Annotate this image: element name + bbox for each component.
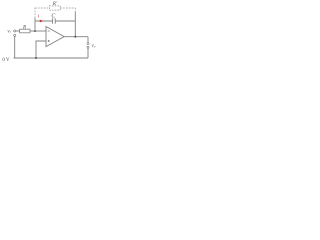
node: rail junction dot [35,57,37,59]
current arrow i (red) [40,20,44,23]
wire: op-amp output [64,36,88,38]
wire: output down to terminal [87,37,89,43]
svg-text:vi: vi [7,30,10,35]
svg-text:vo: vo [92,44,96,49]
output terminal upper circle [87,43,89,45]
op-amp minus sign [48,30,50,32]
wire: bottom 0V rail [14,57,89,59]
wire: non-inverting input to ground rail [36,41,46,58]
wire: capacitor branch right segment [56,20,76,22]
wire: dashed horizontal from R' (right lead) [60,7,75,9]
node: summing junction dot [34,30,36,32]
op-amp U1 [46,27,64,47]
svg-text:i: i [38,15,40,20]
resistor R [20,29,30,33]
svg-text:0 V: 0 V [2,58,10,63]
wire: lower input terminal to rail [14,37,16,59]
wire: dashed horizontal to R' (left lead) [35,7,49,9]
wire: dashed top of right vertical [74,8,76,12]
svg-text:R′: R′ [52,1,58,7]
op-amp plus sign [48,40,50,42]
wire: summing node up to capacitor branch [34,18,36,31]
wire: input terminal to resistor R [16,30,20,32]
wire: resistor to summing node and op-amp inverting input [30,30,46,32]
output terminal lower circle [87,46,89,48]
wire: dashed vertical of optional R' branch (left) [34,8,36,18]
capacitor C left plate [52,18,54,23]
node: feedback/output junction dot [74,36,76,38]
resistor R' (dashed, optional) [49,6,60,10]
capacitor C right plate [54,18,56,23]
wire: right vertical down to output junction [74,12,76,37]
wire: lower output terminal to rail [87,48,89,58]
input terminal upper circle [14,30,16,32]
input terminal lower circle [14,34,16,36]
wire: capacitor branch left segment [35,20,52,22]
svg-text:C: C [51,13,55,19]
